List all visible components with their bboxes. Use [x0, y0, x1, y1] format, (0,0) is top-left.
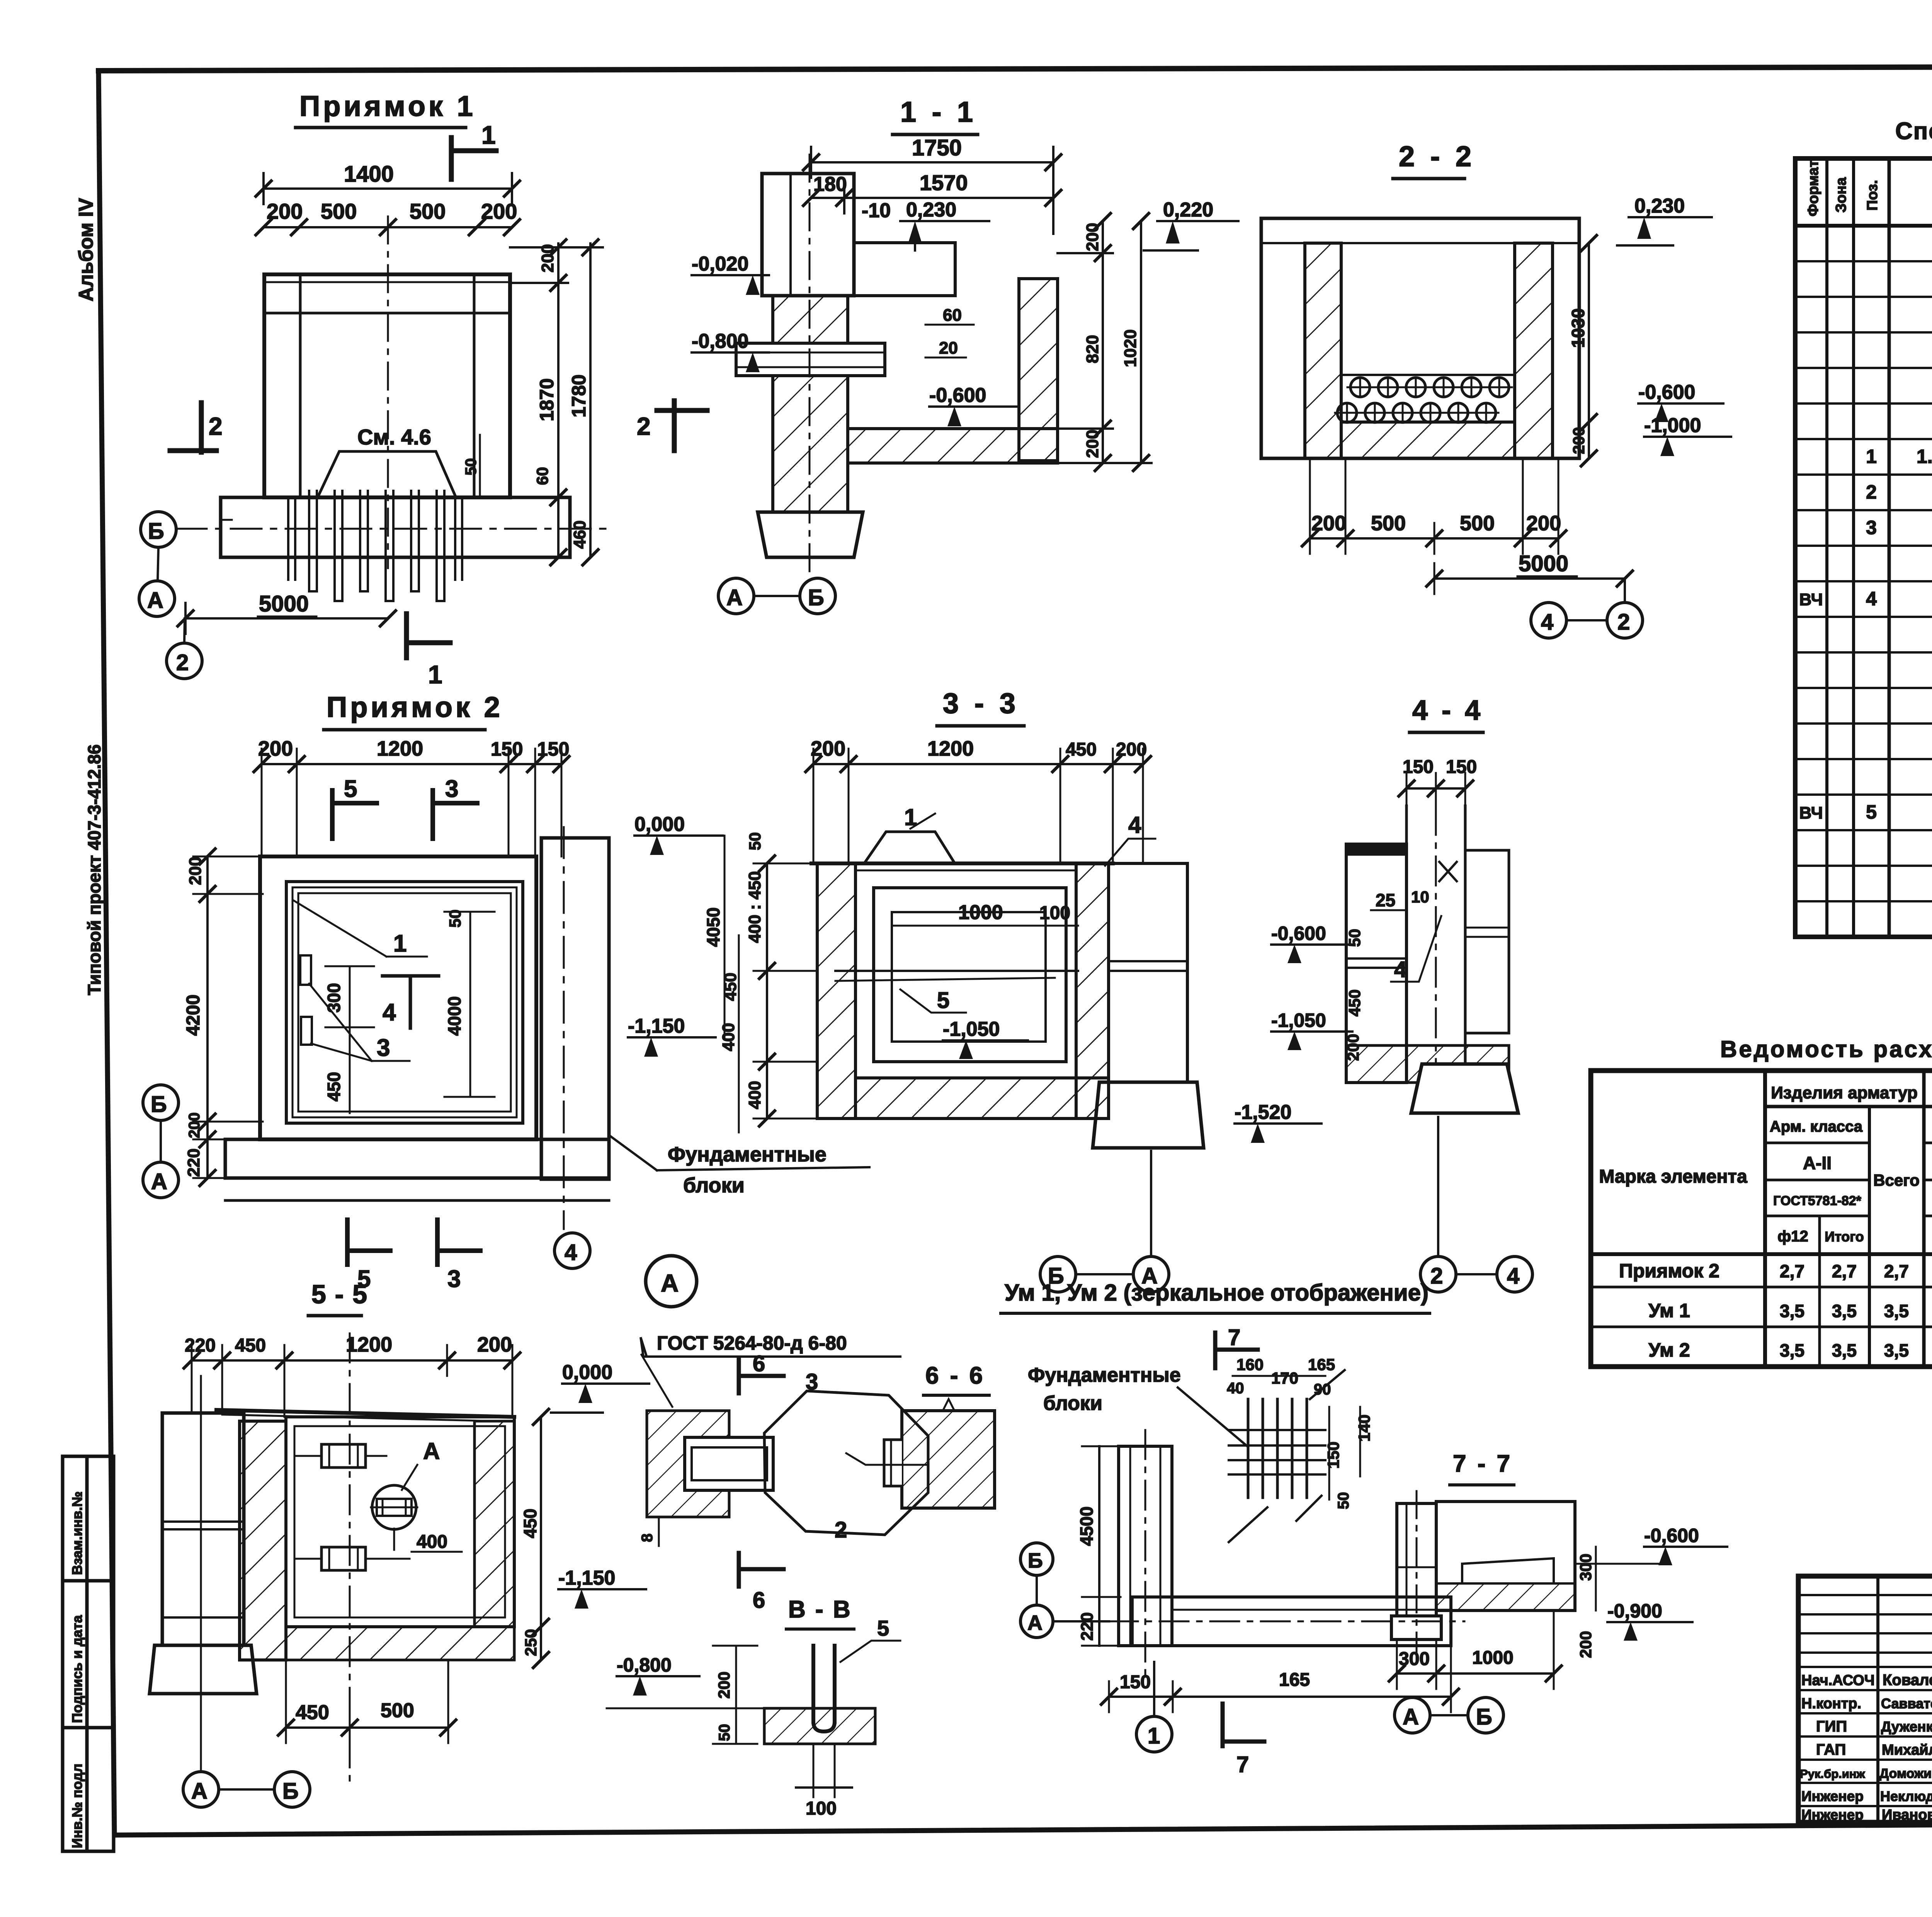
section mark 7 top — [1213, 1333, 1218, 1368]
pit wall inner rects — [286, 882, 523, 1123]
svg-text:-1,050: -1,050 — [1271, 1010, 1326, 1031]
leader from hexagon — [846, 1453, 928, 1465]
svg-text:180: 180 — [813, 173, 847, 196]
svg-text:1020: 1020 — [1121, 329, 1140, 367]
diagonal leaders — [1310, 1370, 1345, 1399]
svg-text:1000: 1000 — [958, 901, 1003, 924]
right hatched wall — [474, 1421, 514, 1627]
figure: section 6-6 — [846, 1362, 995, 1508]
axis circles Б А — [1040, 1256, 1076, 1292]
svg-text:Фундаментные: Фундаментные — [668, 1143, 827, 1166]
svg-text:См. 4.6: См. 4.6 — [357, 425, 431, 449]
svg-text:7: 7 — [1228, 1325, 1240, 1350]
column strip — [1397, 1503, 1436, 1616]
svg-text:ВЧ: ВЧ — [1799, 804, 1823, 822]
svg-text:300: 300 — [1399, 1649, 1430, 1669]
svg-text:3,5: 3,5 — [1832, 1340, 1857, 1360]
dim 5000 — [1434, 577, 1625, 580]
foundation block — [1093, 1082, 1204, 1148]
svg-text:А: А — [147, 588, 163, 613]
svg-text:200: 200 — [258, 737, 293, 760]
svg-text:1870: 1870 — [536, 378, 558, 421]
svg-text:Иванова: Иванова — [1882, 1807, 1932, 1823]
svg-text:250: 250 — [522, 1629, 540, 1656]
svg-text:А: А — [1403, 1704, 1419, 1730]
leader 5 — [900, 989, 966, 1013]
svg-text:200: 200 — [1311, 512, 1346, 535]
svg-text:4: 4 — [1394, 957, 1406, 982]
svg-text:160: 160 — [1236, 1355, 1264, 1374]
figure: section 1-1 — [692, 96, 1238, 614]
svg-text:200: 200 — [538, 244, 557, 272]
svg-text:50: 50 — [716, 1724, 733, 1742]
svg-text:Ковалев: Ковалев — [1883, 1672, 1932, 1689]
plan outer wall rectangle — [264, 274, 510, 497]
svg-text:Ум 1, Ум 2 (зеркальное отобра: Ум 1, Ум 2 (зеркальное отображение) — [1005, 1280, 1429, 1306]
svg-text:50: 50 — [1335, 1492, 1352, 1510]
svg-text:200: 200 — [715, 1672, 733, 1699]
top slab line — [216, 1410, 514, 1417]
svg-text:-0,800: -0,800 — [617, 1654, 672, 1676]
svg-text:200: 200 — [267, 199, 303, 223]
svg-text:Ведомость расхода стали на: Ведомость расхода стали на элемент, кг — [1720, 1036, 1932, 1062]
svg-text:5: 5 — [937, 988, 949, 1013]
svg-text:Типовой проект 407-3-412.86: Типовой проект 407-3-412.86 — [84, 744, 104, 995]
floor hatched — [1346, 1045, 1509, 1083]
dim 200 500 500 200 — [264, 226, 512, 228]
svg-text:2,7: 2,7 — [1832, 1261, 1857, 1281]
svg-text:ф12: ф12 — [1777, 1228, 1808, 1245]
dim 150 150 — [1406, 787, 1465, 790]
hatched block — [902, 1411, 995, 1508]
axis circle 4 — [1531, 603, 1566, 638]
right white column — [1109, 863, 1187, 1082]
axis dash vertical — [809, 155, 811, 580]
svg-text:А-II: А-II — [1803, 1153, 1832, 1173]
svg-text:Б: Б — [1476, 1704, 1492, 1730]
svg-text:Б: Б — [148, 519, 164, 544]
svg-text:200: 200 — [186, 857, 205, 885]
bottom dim 100 — [813, 1744, 815, 1797]
inner panel — [1462, 1558, 1554, 1583]
foundation trapezoid bottom — [150, 1645, 257, 1694]
svg-text:ГИП: ГИП — [1816, 1718, 1847, 1735]
svg-text:400: 400 — [719, 1023, 738, 1051]
bolt grid dims — [1233, 1375, 1325, 1377]
svg-text:-0,600: -0,600 — [1638, 381, 1695, 403]
hatched strip — [764, 1708, 875, 1744]
svg-text:1570: 1570 — [920, 170, 968, 195]
leader 5 — [840, 1641, 900, 1662]
svg-text:2: 2 — [1866, 481, 1877, 503]
axis circle А — [143, 1162, 179, 1198]
svg-text:Б: Б — [282, 1779, 299, 1804]
svg-text:Приямок 1: Приямок 1 — [299, 90, 476, 122]
bottom foundation band — [225, 1139, 609, 1178]
svg-text:450: 450 — [235, 1335, 266, 1356]
svg-text:Изделия арматур: Изделия арматур — [1771, 1083, 1917, 1102]
centerlines — [1145, 1430, 1146, 1681]
svg-text:-0,800: -0,800 — [692, 330, 748, 352]
svg-text:3: 3 — [447, 1266, 461, 1292]
Фундаментные блоки text — [611, 1136, 657, 1170]
figure: section 3-3 — [745, 687, 1321, 1292]
svg-text:3,5: 3,5 — [1884, 1340, 1909, 1360]
svg-text:165: 165 — [1279, 1670, 1310, 1690]
svg-text:Приямок 2: Приямок 2 — [327, 691, 503, 723]
embedded detail rect 1 — [321, 1444, 366, 1468]
svg-text:-1,520: -1,520 — [1235, 1101, 1291, 1124]
svg-text:450: 450 — [721, 973, 740, 1001]
svg-text:1: 1 — [481, 121, 496, 149]
centre axis dash line — [387, 216, 389, 568]
svg-text:Дуженкова: Дуженкова — [1881, 1719, 1932, 1735]
svg-text:100: 100 — [1039, 903, 1070, 923]
foundation block — [758, 512, 863, 557]
svg-text:3,5: 3,5 — [1884, 1301, 1909, 1321]
svg-text:150: 150 — [1120, 1672, 1151, 1692]
svg-text:450: 450 — [324, 1072, 344, 1102]
svg-text:140: 140 — [1355, 1415, 1373, 1442]
dim 4000 inner right — [469, 912, 471, 1097]
dim 180 1570 — [811, 197, 1053, 199]
dim 1000 100 inside pit — [893, 925, 1078, 927]
svg-text:А: А — [191, 1779, 207, 1804]
svg-text:1030: 1030 — [1568, 308, 1588, 348]
axis circles А Б — [183, 1772, 219, 1807]
ledge line — [1341, 374, 1515, 376]
svg-text:ГОСТ5781-82*: ГОСТ5781-82* — [1773, 1193, 1862, 1208]
axis circles Б А left — [1020, 1543, 1053, 1575]
svg-text:Нач.АСОЧ: Нач.АСОЧ — [1801, 1672, 1875, 1689]
svg-text:8: 8 — [639, 1534, 656, 1542]
svg-text:1780: 1780 — [568, 375, 590, 417]
svg-text:150: 150 — [1446, 757, 1477, 777]
svg-text:Ум 2: Ум 2 — [1648, 1339, 1690, 1361]
ledge plate — [854, 243, 955, 296]
left block — [1346, 844, 1406, 1083]
section mark 7 bottom — [1221, 1704, 1225, 1746]
svg-text:200: 200 — [1083, 430, 1102, 458]
svg-text:А: А — [423, 1438, 440, 1464]
svg-text:1400: 1400 — [344, 162, 394, 187]
top break mark — [943, 1399, 954, 1411]
svg-text:4050: 4050 — [703, 907, 723, 947]
axis circle 2 — [1607, 603, 1643, 638]
axis circle 1 bottom — [1136, 1716, 1172, 1752]
top dim chain — [813, 763, 1143, 765]
svg-text:200: 200 — [1083, 223, 1102, 251]
svg-text:170: 170 — [1271, 1369, 1298, 1387]
svg-text:500: 500 — [321, 199, 357, 223]
svg-text:Спецификация на приямки 1,2: Спецификация на приямки 1,2 , Ум1, Ум2 — [1895, 118, 1932, 145]
dim 300 vertical small — [349, 966, 351, 1027]
pit inner rects — [874, 888, 1066, 1062]
svg-text:60: 60 — [943, 306, 962, 325]
hatched wall left — [773, 296, 848, 512]
svg-text:200: 200 — [477, 1333, 512, 1356]
svg-text:400: 400 — [745, 1081, 764, 1109]
svg-text:Приямок 2: Приямок 2 — [1619, 1260, 1719, 1282]
svg-text:блоки: блоки — [1043, 1392, 1102, 1415]
axis circle Б — [141, 512, 176, 547]
foundation block — [1411, 1064, 1518, 1113]
svg-text:3: 3 — [377, 1035, 390, 1061]
svg-text:Формат: Формат — [1805, 160, 1821, 216]
svg-text:5: 5 — [1866, 801, 1877, 823]
leader 1 — [294, 901, 386, 957]
section mark 6 top — [737, 1360, 741, 1393]
figure: Приямок 2 plan — [143, 691, 869, 1292]
left bottom stamp boxes — [63, 1456, 114, 1851]
svg-text:Арм. класса: Арм. класса — [1770, 1118, 1863, 1135]
figure: section В-В — [607, 1596, 900, 1819]
svg-text:А: А — [151, 1169, 167, 1194]
section mark 3 top — [430, 790, 435, 839]
anchor bolt circles row1 — [1350, 378, 1509, 397]
right vertical dim chain — [557, 243, 560, 557]
svg-text:ВЧ: ВЧ — [1799, 590, 1823, 609]
axis dash vertical — [349, 1333, 351, 1786]
svg-text:-0,900: -0,900 — [1607, 1600, 1662, 1622]
specification table — [1795, 118, 1932, 937]
svg-text:10: 10 — [1411, 888, 1429, 906]
svg-text:5000: 5000 — [1519, 551, 1568, 576]
dim 400 — [393, 1529, 395, 1550]
svg-text:1200: 1200 — [377, 737, 423, 760]
svg-text:500: 500 — [410, 199, 446, 223]
svg-text:4500: 4500 — [1077, 1507, 1097, 1546]
svg-text:ГОСТ 5264-80-д 6-80: ГОСТ 5264-80-д 6-80 — [657, 1332, 847, 1354]
channel MH555 lines through pit — [835, 970, 1078, 972]
svg-text:200: 200 — [1577, 1631, 1595, 1658]
left vertical dim — [766, 863, 768, 1119]
svg-text:500: 500 — [1460, 512, 1495, 535]
svg-text:Н.контр.: Н.контр. — [1801, 1696, 1861, 1712]
svg-text:5000: 5000 — [259, 591, 309, 616]
svg-text:Взам.инв.№: Взам.инв.№ — [69, 1491, 85, 1575]
column above ground — [762, 174, 854, 296]
svg-text:3: 3 — [806, 1369, 818, 1394]
svg-text:1: 1 — [428, 660, 442, 689]
svg-text:В - В: В - В — [788, 1596, 852, 1623]
staff names — [1800, 1672, 1932, 1823]
svg-text:Б: Б — [808, 585, 824, 610]
svg-text:3,5: 3,5 — [1832, 1301, 1857, 1321]
svg-text:Марка элемента: Марка элемента — [1599, 1166, 1747, 1187]
floor strip hatched — [1341, 422, 1515, 458]
svg-text:0,230: 0,230 — [906, 199, 956, 221]
section mark 1 top — [449, 138, 454, 179]
channel beam through wall — [736, 343, 885, 376]
svg-text:450: 450 — [1066, 739, 1097, 760]
svg-text:Всего: Всего — [1873, 1171, 1920, 1189]
detail circle А — [646, 1256, 697, 1307]
pit interior — [286, 1417, 514, 1627]
bottom dim 150 165 — [1109, 1696, 1451, 1698]
svg-text:820: 820 — [1083, 335, 1102, 363]
svg-text:2: 2 — [835, 1517, 847, 1542]
svg-text:Альбом IV: Альбом IV — [75, 198, 97, 301]
vertical band — [1119, 1446, 1172, 1646]
trapezoid hump 1 — [866, 832, 954, 861]
floor slab hatched — [848, 429, 1058, 463]
svg-text:20: 20 — [939, 339, 958, 358]
svg-text:1: 1 — [1148, 1723, 1160, 1748]
left hatched block — [647, 1411, 729, 1517]
big rect body — [1436, 1502, 1575, 1611]
central hatched wall — [240, 1421, 286, 1660]
svg-text:200: 200 — [186, 1112, 203, 1138]
figure: section 4-4 — [1271, 695, 1532, 1292]
wall inner edges — [299, 274, 302, 497]
axis circles А Б — [718, 578, 754, 614]
svg-text:-10: -10 — [862, 199, 891, 222]
trapezoid detail См.4.6 — [318, 451, 456, 497]
svg-text:Доможирова: Доможирова — [1879, 1766, 1932, 1781]
svg-text:6: 6 — [753, 1351, 765, 1376]
section mark 3 bottom — [435, 1220, 440, 1265]
svg-text:200: 200 — [1344, 1034, 1362, 1061]
hatched bottom strip — [1436, 1583, 1575, 1611]
hatched wall left — [1305, 243, 1341, 458]
centerline — [1416, 1491, 1418, 1662]
leader 4 — [1391, 916, 1441, 982]
plan outer rect — [260, 856, 536, 1139]
svg-text:150: 150 — [1324, 1442, 1342, 1469]
top dim chain 220 450 1200 200 — [192, 1359, 512, 1362]
section mark 5 top — [330, 790, 335, 839]
svg-text:1200: 1200 — [346, 1333, 392, 1356]
svg-text:100: 100 — [806, 1798, 837, 1819]
anchor bolt grid top right — [1248, 1399, 1307, 1498]
section mark 1 bottom — [404, 614, 409, 658]
svg-text:-1,150: -1,150 — [628, 1015, 685, 1037]
svg-text:500: 500 — [1371, 512, 1406, 535]
svg-text:Ум 1: Ум 1 — [1648, 1300, 1690, 1321]
horizontal band — [1132, 1597, 1451, 1646]
svg-text:3 - 3: 3 - 3 — [943, 687, 1019, 719]
right foundation band — [541, 838, 609, 1179]
right hatched column — [1019, 279, 1058, 461]
title block (штамп) — [1798, 1576, 1932, 1824]
svg-text:-1,000: -1,000 — [1644, 414, 1701, 437]
svg-text:165: 165 — [1308, 1355, 1335, 1374]
svg-text:А: А — [661, 1269, 679, 1297]
left hatched wall — [817, 863, 855, 1119]
dim 1400 — [264, 187, 512, 190]
svg-text:1000: 1000 — [1472, 1648, 1514, 1668]
figure: section 7-7 — [1389, 1451, 1727, 1733]
figure: Ум 1, Ум 2 plan (mirrored) — [1001, 1280, 1464, 1777]
svg-text:4: 4 — [1866, 588, 1877, 609]
leader 4 right — [1105, 839, 1155, 866]
svg-text:ГАП: ГАП — [1816, 1741, 1846, 1758]
staff columns — [1878, 1576, 1932, 1822]
svg-text:5: 5 — [344, 776, 357, 802]
svg-text:0,230: 0,230 — [1634, 195, 1685, 217]
leader 3 — [309, 984, 372, 1061]
svg-text:2: 2 — [1617, 609, 1630, 635]
bottom hatched floor — [286, 1627, 514, 1660]
svg-text:1: 1 — [904, 804, 917, 830]
svg-text:5 - 5: 5 - 5 — [311, 1280, 368, 1309]
axis circle 4 bottom — [554, 1233, 590, 1268]
svg-text:1: 1 — [1866, 446, 1877, 467]
svg-text:4: 4 — [383, 999, 396, 1026]
svg-text:3: 3 — [1866, 517, 1877, 538]
svg-text:4: 4 — [1541, 609, 1553, 635]
right rotated dims — [1595, 1547, 1597, 1611]
U bolt bars — [813, 1646, 835, 1731]
foundation blocks stack left — [162, 1413, 244, 1645]
section mark 6 bottom — [737, 1553, 741, 1587]
wall strips — [1405, 806, 1408, 1082]
axis circles А Б — [1395, 1697, 1430, 1733]
dim 450 vertical small — [349, 1027, 351, 1113]
axis circle А — [139, 581, 175, 616]
svg-text:400 : 450: 400 : 450 — [745, 871, 764, 943]
svg-text:450: 450 — [296, 1701, 329, 1724]
outer body — [1261, 218, 1579, 458]
svg-text:3,5: 3,5 — [1780, 1301, 1804, 1321]
svg-text:Зона: Зона — [1833, 177, 1849, 213]
foundation strip — [221, 497, 570, 557]
svg-text:450: 450 — [520, 1508, 540, 1538]
svg-text:50: 50 — [446, 909, 464, 928]
svg-text:Михайлов: Михайлов — [1882, 1742, 1932, 1758]
svg-text:3,5: 3,5 — [1780, 1340, 1804, 1360]
svg-text:4: 4 — [565, 1240, 577, 1265]
svg-text:7: 7 — [1236, 1752, 1249, 1777]
figure: section 5-5 — [150, 1280, 649, 1807]
circled detail — [372, 1485, 416, 1529]
svg-text:Инв.№ подл: Инв.№ подл — [69, 1764, 85, 1848]
svg-text:1200: 1200 — [927, 737, 974, 760]
svg-text:150: 150 — [1403, 757, 1434, 777]
svg-text:2: 2 — [637, 412, 651, 440]
svg-text:-0,600: -0,600 — [1644, 1525, 1699, 1546]
svg-text:4: 4 — [1507, 1263, 1519, 1289]
svg-text:5: 5 — [877, 1616, 889, 1640]
section mark 2 right — [672, 401, 677, 451]
svg-text:1.400-15 в.1: 1.400-15 в.1 — [1917, 446, 1932, 467]
hexagon balloon — [764, 1391, 928, 1535]
welded channel left — [884, 1440, 902, 1486]
hatched wall right — [1515, 243, 1553, 458]
steel consumption table (Ведомость расхода стали) — [1591, 1036, 1932, 1367]
svg-text:40: 40 — [1227, 1380, 1244, 1397]
svg-text:200: 200 — [1526, 512, 1561, 535]
svg-text:450: 450 — [1345, 989, 1364, 1016]
svg-text:1750: 1750 — [912, 135, 962, 160]
left vertical dims — [735, 1646, 737, 1744]
svg-text:7 - 7: 7 - 7 — [1453, 1451, 1512, 1477]
svg-text:Итого: Итого — [1825, 1229, 1864, 1245]
small dim left of block — [658, 1517, 660, 1546]
svg-text:150: 150 — [491, 738, 523, 760]
svg-text:400: 400 — [417, 1532, 447, 1552]
svg-text:Фундаментные: Фундаментные — [1028, 1364, 1181, 1386]
right block — [1465, 850, 1509, 1033]
left dim chain — [206, 856, 209, 1178]
right dim chains — [1102, 221, 1104, 463]
svg-text:4000: 4000 — [444, 996, 464, 1036]
svg-text:6 - 6: 6 - 6 — [925, 1362, 985, 1389]
svg-text:блоки: блоки — [683, 1174, 745, 1197]
svg-text:-0,600: -0,600 — [929, 384, 986, 407]
foundation block — [1391, 1616, 1441, 1639]
